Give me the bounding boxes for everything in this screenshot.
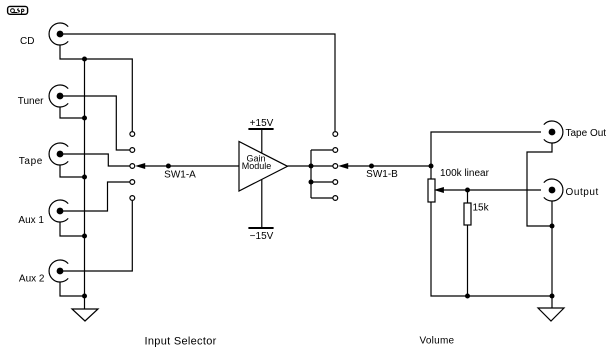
svg-text:100k linear: 100k linear bbox=[440, 168, 490, 179]
switch SW1-B contact 1 bbox=[333, 132, 338, 137]
junction CD ground bbox=[82, 57, 87, 62]
wire CD signal to SW1-B contact 1 bbox=[63, 34, 335, 131]
junction 15k top bbox=[465, 188, 470, 193]
ESP logo bbox=[8, 6, 28, 14]
wire Tuner shell to ground bus bbox=[60, 107, 85, 118]
RCA jack Output bbox=[544, 179, 563, 201]
RCA jack CD bbox=[49, 23, 68, 45]
wiper arrow SW1-A bbox=[137, 164, 144, 168]
svg-text:+15V: +15V bbox=[250, 118, 274, 129]
label Gain Module bbox=[242, 154, 272, 172]
svg-text:Aux 1: Aux 1 bbox=[18, 215, 44, 226]
switch SW1-B contact 5 bbox=[333, 196, 338, 201]
switch SW1-A contact 5 bbox=[130, 196, 135, 201]
RCA jack Tape bbox=[49, 143, 68, 165]
svg-text:SW1-B: SW1-B bbox=[366, 169, 398, 180]
wire Tape Out shell ground bbox=[527, 143, 552, 226]
svg-text:Input Selector: Input Selector bbox=[145, 336, 217, 348]
op-amp gain module bbox=[239, 142, 288, 192]
junction Tuner ground bbox=[82, 116, 87, 121]
RCA jack Aux 1 bbox=[49, 200, 68, 222]
switch SW1-A contact 1 bbox=[130, 132, 135, 137]
ground symbol right bbox=[538, 308, 564, 321]
wire Aux 2 signal to SW1-A contact 5 bbox=[63, 201, 132, 271]
RCA jack Aux 2 bbox=[49, 260, 68, 282]
svg-text:Tape Out: Tape Out bbox=[566, 128, 607, 139]
wire stub to SW1-B contact 4 bbox=[311, 181, 333, 183]
junction SW1-B bus contact 3 bbox=[309, 164, 314, 169]
svg-text:Output: Output bbox=[566, 187, 599, 198]
switch SW1-B contact 4 bbox=[333, 180, 338, 185]
switch SW1-B contact 3 bbox=[333, 164, 338, 169]
junction Aux 2 ground bbox=[82, 294, 87, 299]
svg-text:Volume: Volume bbox=[420, 336, 455, 347]
svg-text:15k: 15k bbox=[473, 203, 490, 214]
wire stub to SW1-B contact 3 bbox=[311, 165, 333, 167]
wire SW1-B bus bbox=[310, 150, 312, 198]
svg-text:Module: Module bbox=[242, 161, 272, 171]
wire volume node to tape out bbox=[431, 132, 541, 179]
-15V supply rail bbox=[248, 180, 273, 243]
wire Tuner signal to SW1-A contact 2 bbox=[63, 96, 130, 150]
junction output ground bbox=[550, 224, 555, 229]
resistor R1 15k leads bbox=[467, 190, 469, 296]
wiper arrow SW1-B bbox=[340, 164, 347, 168]
wire Aux 1 signal to SW1-A contact 4 bbox=[63, 182, 130, 211]
wire ground bus bbox=[84, 59, 86, 309]
wire Output shell ground bbox=[551, 201, 553, 308]
RCA jack Tuner bbox=[49, 85, 68, 107]
switch SW1-A contact 3 bbox=[130, 164, 135, 169]
wire stub to SW1-B contact 5 bbox=[311, 197, 333, 199]
wire Aux 1 shell to ground bus bbox=[60, 222, 85, 236]
junction volume node bbox=[429, 164, 434, 169]
svg-text:SW1-A: SW1-A bbox=[164, 170, 196, 181]
wire SW1-A wiper to gain module input bbox=[144, 165, 239, 167]
svg-text:Tuner: Tuner bbox=[18, 96, 44, 107]
wire gain module output to SW1-B bus bbox=[288, 165, 312, 167]
switch SW1-B contact 2 bbox=[333, 148, 338, 153]
wire pot bottom to ground bus bbox=[431, 202, 552, 296]
junction SW1-B wiper bbox=[369, 164, 374, 169]
wire pot wiper to output jack bbox=[443, 189, 541, 191]
junction ground bus right bbox=[550, 294, 555, 299]
wire Tape signal to SW1-A contact 3 bbox=[63, 154, 130, 166]
potentiometer wiper arrow bbox=[436, 188, 443, 192]
wire Tape shell to ground bus bbox=[60, 165, 85, 177]
junction SW1-A wiper bbox=[166, 164, 171, 169]
junction Tape ground bbox=[82, 175, 87, 180]
junction Aux 1 ground bbox=[82, 234, 87, 239]
ground symbol left bbox=[72, 309, 98, 321]
switch SW1-A contact 2 bbox=[130, 148, 135, 153]
switch SW1-A contact 4 bbox=[130, 180, 135, 185]
svg-text:Tape: Tape bbox=[19, 156, 43, 167]
svg-text:Aux 2: Aux 2 bbox=[19, 274, 45, 285]
wire stub to SW1-B contact 2 bbox=[311, 149, 333, 151]
junction 15k bottom bbox=[465, 294, 470, 299]
wire Aux 2 shell to ground bus bbox=[60, 282, 85, 296]
wire SW1-B wiper to volume pot bbox=[347, 165, 431, 167]
wire CD shell to ground bus and SW1-A contact 1 bbox=[60, 45, 132, 131]
resistor R1 15k body bbox=[464, 203, 471, 225]
RCA jack Tape Out bbox=[544, 121, 563, 143]
+15V supply rail bbox=[248, 118, 273, 153]
junction SW1-B bus contact 4 bbox=[309, 180, 314, 185]
svg-text:CD: CD bbox=[20, 36, 34, 47]
potentiometer VR1 100k body bbox=[428, 179, 435, 202]
svg-text:−15V: −15V bbox=[250, 231, 274, 242]
